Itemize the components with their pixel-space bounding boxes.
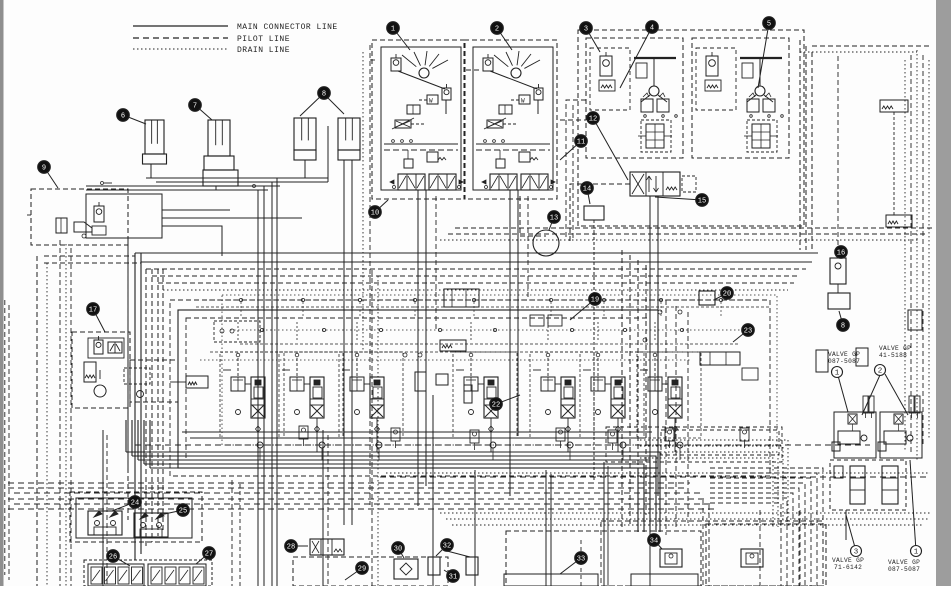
svg-text:4: 4 (650, 25, 654, 33)
svg-text:19: 19 (591, 297, 599, 305)
valve block 5 (692, 38, 789, 158)
balloon 34 (648, 534, 662, 549)
balloon 30 (392, 542, 405, 558)
valve gp unit A (832, 396, 876, 458)
svg-text:6: 6 (121, 113, 125, 121)
svg-text:087-5087: 087-5087 (828, 358, 860, 365)
valve group outer frame (578, 30, 804, 226)
balloon 3 (580, 22, 600, 52)
inter-section relief pots (299, 426, 749, 450)
motor valve 24 (88, 511, 122, 535)
balloon 12 (587, 112, 628, 180)
svg-text:VALVE GP: VALVE GP (828, 351, 860, 358)
pilot pump group 17 (72, 332, 178, 408)
balloon 8 (300, 87, 330, 116)
balloon 27 (196, 547, 215, 564)
cylinder 6 (143, 120, 167, 164)
svg-text:2: 2 (495, 26, 499, 34)
legend: pilot line (133, 37, 228, 39)
valve 32a (428, 557, 440, 575)
svg-text:8: 8 (322, 91, 326, 99)
svg-text:14: 14 (583, 186, 591, 194)
bottom center frame (293, 521, 823, 586)
valve section S7 (637, 322, 701, 452)
cylinder 8b (338, 118, 360, 160)
far left drain lines (5, 240, 107, 586)
balloon 11 (560, 135, 587, 160)
return bus solid (126, 236, 660, 532)
pilot bus bottom dashed (8, 483, 718, 509)
balloon 32 (436, 539, 453, 556)
svg-text:12: 12 (589, 116, 597, 124)
balloon 7 (189, 99, 212, 120)
pilot supply lines from block 9 (162, 210, 302, 256)
swing motor group frame (70, 492, 202, 542)
svg-text:30: 30 (394, 546, 402, 554)
svg-text:3: 3 (854, 549, 859, 557)
corner nest lines (606, 427, 823, 586)
svg-text:24: 24 (131, 500, 139, 508)
relief valve right of band (838, 56, 922, 330)
valve bank 26/27 frame (84, 560, 212, 586)
svg-text:W: W (521, 98, 525, 105)
balloon 31 (444, 570, 459, 583)
hose assembly circle 13 (533, 230, 559, 256)
svg-text:17: 17 (89, 307, 97, 315)
balloon 5 (758, 17, 775, 88)
balloon 4 (620, 21, 658, 88)
lower spool valve group 3 (830, 460, 906, 540)
balloon 20 (714, 287, 733, 300)
svg-text:W: W (429, 98, 433, 105)
balloon 10 (369, 200, 388, 218)
legend: drain line (133, 48, 228, 50)
svg-text:7: 7 (193, 103, 197, 111)
balloon 13 (548, 211, 561, 230)
balloon 33 (560, 552, 587, 574)
svg-text:11: 11 (577, 139, 585, 147)
svg-text:22: 22 (492, 402, 500, 410)
svg-text:1: 1 (391, 26, 395, 34)
svg-text:13: 13 (550, 215, 558, 223)
scan border right (936, 0, 951, 586)
svg-text:9: 9 (42, 165, 46, 173)
balloon 19 (570, 293, 601, 320)
balloon 17 (87, 303, 105, 332)
svg-text:1: 1 (835, 370, 840, 378)
pressure switch 14 (584, 206, 604, 232)
balloon 24 (112, 496, 141, 511)
valve section S3 (339, 322, 403, 452)
svg-text:32: 32 (443, 543, 451, 551)
misc bottom verticals (323, 270, 800, 586)
svg-text:16: 16 (837, 250, 845, 258)
svg-text:15: 15 (698, 198, 706, 206)
svg-text:5: 5 (767, 21, 771, 29)
svg-text:29: 29 (358, 566, 366, 574)
svg-text:23: 23 (744, 328, 752, 336)
left pilot bundle (128, 236, 163, 560)
pilot valve block 2 (464, 40, 557, 199)
balloon 26 (107, 550, 130, 566)
pilot bus top (440, 228, 932, 240)
pump group 9 (24, 189, 162, 245)
svg-text:28: 28 (287, 544, 295, 552)
valve section S1 (220, 322, 284, 452)
scan border left (0, 0, 4, 586)
balloon 16 (835, 246, 848, 259)
check box 34b (741, 549, 763, 567)
svg-text:2: 2 (878, 368, 883, 376)
valve section S6 (580, 322, 644, 452)
pilot lines blocks 1-2 down (232, 45, 586, 586)
svg-text:VALVE GP: VALVE GP (832, 557, 864, 564)
balloon 23 (733, 324, 754, 342)
svg-text:71-6142: 71-6142 (834, 564, 862, 571)
directional control valve 12 (630, 172, 696, 196)
balloon 2 (491, 22, 512, 50)
svg-text:34: 34 (650, 538, 658, 546)
solenoid valve 28 (310, 539, 344, 555)
cylinder 7 (203, 120, 238, 186)
svg-text:41-5188: 41-5188 (879, 352, 907, 359)
balloon 3 (open) (846, 515, 862, 557)
valve section S5 (530, 322, 594, 452)
balloon 28 (285, 540, 308, 553)
balloon 1 (open) (832, 367, 849, 413)
svg-text:20: 20 (723, 291, 731, 299)
balloon 8 (837, 311, 850, 331)
svg-text:31: 31 (449, 574, 457, 582)
valve block 4 (586, 38, 683, 158)
valve section S2 (279, 322, 343, 452)
main control valve outline (170, 295, 777, 476)
check box 34a (660, 549, 682, 567)
main bus bundle upper (44, 253, 818, 290)
svg-text:8: 8 (841, 323, 845, 331)
section bottom header (182, 431, 652, 433)
far right drain lines (800, 46, 929, 460)
svg-text:27: 27 (205, 551, 213, 559)
svg-text:10: 10 (371, 210, 379, 218)
accumulator box 20 (699, 291, 715, 305)
legend: main connector line (133, 25, 228, 27)
relief valve 16 (830, 250, 846, 293)
section pilot header lines (196, 298, 770, 360)
svg-text:DRAIN LINE: DRAIN LINE (237, 46, 290, 55)
valve 32b (466, 557, 478, 575)
drain bus bottom dotted (135, 445, 930, 525)
svg-text:MAIN CONNECTOR LINE: MAIN CONNECTOR LINE (237, 23, 338, 32)
lines from valve 12 down (570, 184, 658, 526)
pilot valve block 1 (372, 40, 465, 199)
cylinder 8a (294, 118, 316, 160)
section bottom ports (257, 442, 683, 460)
svg-text:26: 26 (109, 554, 117, 562)
balloon 1 (open) (910, 460, 922, 557)
filter box (828, 293, 850, 309)
svg-text:3: 3 (584, 26, 588, 34)
right pilot bundle (622, 250, 688, 535)
shuttle box 30 (394, 559, 418, 579)
svg-text:25: 25 (179, 508, 187, 516)
svg-text:1: 1 (914, 549, 919, 557)
drain bundle right of block 5 (566, 40, 812, 250)
svg-text:PILOT LINE: PILOT LINE (237, 35, 290, 44)
balloon 2 (open) (875, 365, 886, 376)
balloon 9 (38, 161, 58, 188)
valve section S4 (453, 322, 517, 452)
svg-text:VALVE GP: VALVE GP (879, 345, 911, 352)
bottom right frame (706, 524, 826, 586)
upper band small components (170, 289, 868, 403)
motor valve 25 (134, 513, 168, 537)
balloon 15 (655, 194, 708, 207)
balloon 1 (387, 22, 410, 50)
balloon 25 (160, 504, 189, 517)
svg-text:087-5087: 087-5087 (888, 566, 920, 573)
balloon 6 (117, 109, 146, 124)
valve gp unit B (878, 396, 922, 458)
svg-text:VALVE GP: VALVE GP (888, 559, 920, 566)
balloon 22 (490, 395, 520, 410)
balloon 29 (345, 562, 368, 580)
balloon 14 (581, 182, 594, 204)
cylinder manifold lines (86, 126, 352, 586)
